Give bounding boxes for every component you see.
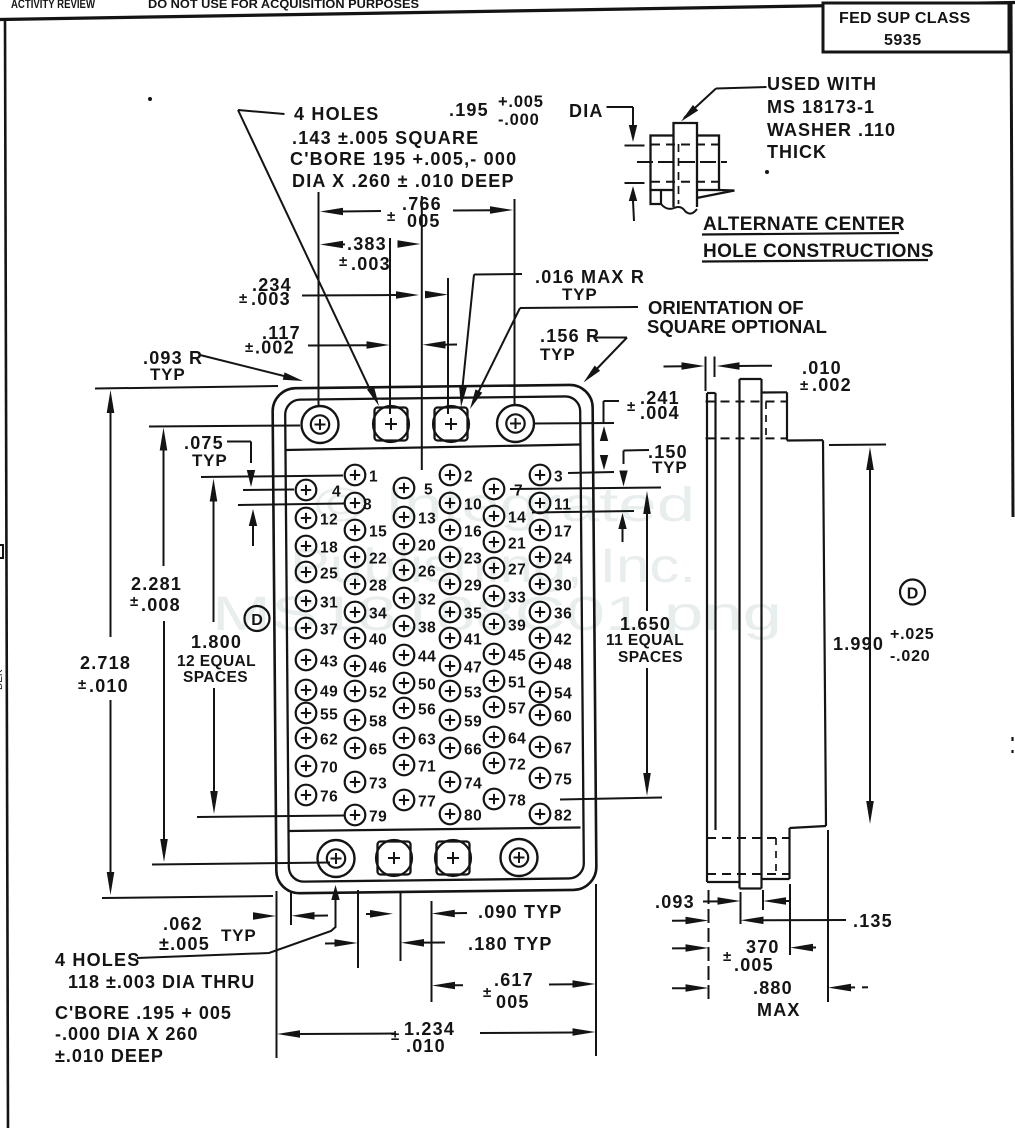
svg-text:MS 18173-1: MS 18173-1 bbox=[767, 97, 875, 117]
dim 1.650 11 equal spaces bbox=[643, 491, 651, 514]
svg-text:WASHER .110: WASHER .110 bbox=[767, 120, 896, 140]
svg-text:USED WITH: USED WITH bbox=[767, 74, 877, 94]
svg-text:31: 31 bbox=[320, 595, 338, 612]
svg-text:12: 12 bbox=[320, 512, 338, 529]
washer detail body bbox=[651, 136, 720, 191]
svg-text:±: ± bbox=[483, 984, 491, 1001]
contact hole 51 bbox=[484, 671, 505, 692]
svg-text:±: ± bbox=[339, 253, 347, 270]
contact hole 26 bbox=[394, 560, 415, 581]
svg-text:TYP: TYP bbox=[221, 926, 256, 945]
svg-text:63: 63 bbox=[418, 732, 436, 749]
svg-text:39: 39 bbox=[508, 618, 526, 635]
svg-text:18: 18 bbox=[320, 540, 338, 557]
svg-text:77: 77 bbox=[418, 794, 436, 811]
contact hole 78 bbox=[484, 789, 505, 810]
svg-text:75: 75 bbox=[554, 772, 572, 789]
svg-text:32: 32 bbox=[418, 592, 436, 609]
svg-text:.090 TYP: .090 TYP bbox=[478, 902, 563, 922]
svg-text:118 ±.003 DIA THRU: 118 ±.003 DIA THRU bbox=[68, 972, 255, 992]
contact hole 17 bbox=[530, 520, 551, 541]
svg-text:.195: .195 bbox=[449, 100, 489, 120]
svg-text:41: 41 bbox=[464, 632, 482, 649]
contact hole 37 bbox=[296, 618, 317, 639]
dim .090 typ bbox=[366, 913, 373, 915]
contact hole 80 bbox=[440, 804, 461, 825]
contact hole 38 bbox=[394, 616, 415, 637]
svg-text:±: ± bbox=[387, 208, 395, 225]
svg-text:82: 82 bbox=[554, 808, 572, 825]
svg-text:11 EQUAL: 11 EQUAL bbox=[606, 632, 684, 649]
leader used with bbox=[716, 87, 767, 89]
svg-text:40: 40 bbox=[369, 632, 387, 649]
svg-text:53: 53 bbox=[464, 685, 482, 702]
svg-text:54: 54 bbox=[554, 686, 572, 703]
section left wall bbox=[706, 393, 708, 830]
svg-text:-.000: -.000 bbox=[498, 111, 540, 129]
contact hole 44 bbox=[394, 645, 415, 666]
dim 2.281 bbox=[160, 428, 168, 451]
svg-text:-.020: -.020 bbox=[890, 648, 930, 665]
contact hole 7 bbox=[484, 479, 505, 500]
leader orientation bbox=[520, 307, 638, 308]
svg-text:+.025: +.025 bbox=[890, 626, 934, 643]
svg-text:43: 43 bbox=[320, 654, 338, 671]
leader 4 holes bottom to hole A bbox=[137, 899, 336, 958]
contact hole 25 bbox=[296, 562, 317, 583]
svg-text:2.718: 2.718 bbox=[80, 653, 131, 673]
contact hole 64 bbox=[484, 727, 505, 748]
leader hole 7 right bbox=[510, 488, 661, 490]
svg-text:50: 50 bbox=[418, 677, 436, 694]
svg-text:30: 30 bbox=[554, 578, 572, 595]
contact hole 71 bbox=[394, 755, 415, 776]
svg-text:4 HOLES: 4 HOLES bbox=[55, 950, 140, 970]
svg-text:74: 74 bbox=[464, 776, 482, 793]
svg-text:55: 55 bbox=[320, 707, 338, 724]
contact hole 41 bbox=[440, 628, 461, 649]
contact hole 18 bbox=[296, 536, 317, 557]
contact hole 20 bbox=[394, 534, 415, 555]
contact hole 22 bbox=[345, 547, 366, 568]
frame top border bbox=[0, 3, 1015, 20]
svg-text:7: 7 bbox=[514, 483, 523, 500]
svg-text:.180 TYP: .180 TYP bbox=[468, 934, 553, 954]
big hole top center line right bbox=[533, 422, 614, 425]
section body right bbox=[762, 391, 788, 393]
contact hole 50 bbox=[394, 673, 415, 694]
svg-text:.003: .003 bbox=[351, 254, 391, 274]
contact hole 79 bbox=[345, 805, 366, 826]
frame right border bbox=[1011, 3, 1013, 517]
dim 1.234 bbox=[277, 1030, 300, 1038]
svg-text:SPACES: SPACES bbox=[183, 669, 248, 686]
svg-text:13: 13 bbox=[418, 511, 436, 528]
plate top band separator bbox=[286, 445, 580, 451]
washer detail center post bbox=[674, 123, 698, 207]
datum circle D right bbox=[900, 580, 925, 605]
contact hole 13 bbox=[394, 507, 415, 528]
contact hole 31 bbox=[296, 591, 317, 612]
svg-text:DIA X .260 ± .010 DEEP: DIA X .260 ± .010 DEEP bbox=[292, 171, 515, 191]
big hole bottom center line left bbox=[152, 863, 330, 865]
svg-text:58: 58 bbox=[369, 714, 387, 731]
big hole bottom D bbox=[501, 839, 538, 876]
svg-text:.008: .008 bbox=[141, 595, 181, 615]
section hidden lines top bbox=[706, 401, 788, 403]
svg-text:35: 35 bbox=[464, 606, 482, 623]
svg-text:23: 23 bbox=[464, 551, 482, 568]
contact hole 3 bbox=[530, 465, 551, 486]
dim .180 typ bbox=[325, 942, 337, 944]
svg-text:15: 15 bbox=[369, 524, 387, 541]
leader .156 r bbox=[594, 337, 628, 339]
section ext lines bottom bbox=[708, 890, 710, 1004]
svg-text:14: 14 bbox=[508, 510, 526, 527]
section flange bottom bbox=[706, 830, 708, 882]
big hole top center line left bbox=[149, 426, 300, 427]
contact hole 73 bbox=[345, 772, 366, 793]
contact hole 45 bbox=[484, 644, 505, 665]
dim .150 typ bbox=[624, 449, 650, 452]
svg-text:56: 56 bbox=[418, 702, 436, 719]
contact hole 2 bbox=[440, 465, 461, 486]
svg-text:C'BORE .195 + 005: C'BORE .195 + 005 bbox=[55, 1003, 232, 1023]
contact hole 24 bbox=[530, 547, 551, 568]
svg-text:2: 2 bbox=[464, 469, 473, 486]
svg-text:-.000 DIA X 260: -.000 DIA X 260 bbox=[55, 1024, 198, 1044]
svg-text:.062: .062 bbox=[163, 914, 203, 934]
svg-text:±: ± bbox=[78, 676, 86, 693]
contact hole 28 bbox=[345, 574, 366, 595]
contact hole 21 bbox=[484, 532, 505, 553]
svg-text:±: ± bbox=[800, 377, 808, 394]
svg-text:79: 79 bbox=[369, 809, 387, 826]
svg-text:29: 29 bbox=[464, 578, 482, 595]
contact hole 54 bbox=[530, 682, 551, 703]
svg-text:25: 25 bbox=[320, 566, 338, 583]
svg-text:±.010 DEEP: ±.010 DEEP bbox=[55, 1046, 164, 1066]
contact hole 70 bbox=[296, 756, 317, 777]
svg-text:±: ± bbox=[391, 1027, 399, 1044]
contact hole 66 bbox=[440, 738, 461, 759]
leader hole 14 right bbox=[532, 511, 634, 513]
svg-text:.143 ±.005 SQUARE: .143 ±.005 SQUARE bbox=[292, 128, 479, 148]
svg-text:005: 005 bbox=[496, 992, 530, 1012]
svg-text:.010: .010 bbox=[89, 676, 129, 696]
svg-text:33: 33 bbox=[508, 590, 526, 607]
washer detail left tab bbox=[651, 190, 662, 204]
contact hole 57 bbox=[484, 697, 505, 718]
ext plate bottom left bbox=[102, 896, 273, 898]
svg-text:48: 48 bbox=[554, 657, 572, 674]
svg-text:TYP: TYP bbox=[192, 451, 227, 470]
svg-text:±: ± bbox=[723, 948, 731, 965]
svg-text:THICK: THICK bbox=[767, 142, 827, 162]
svg-text:FED SUP CLASS: FED SUP CLASS bbox=[839, 10, 971, 27]
svg-text:42: 42 bbox=[554, 632, 572, 649]
contact hole 77 bbox=[394, 790, 415, 811]
svg-text:.880: .880 bbox=[753, 978, 793, 998]
contact hole 72 bbox=[484, 753, 505, 774]
contact hole 53 bbox=[440, 681, 461, 702]
contact hole 62 bbox=[296, 728, 317, 749]
fed sup class box bbox=[823, 3, 1009, 52]
svg-text:SQUARE OPTIONAL: SQUARE OPTIONAL bbox=[647, 316, 827, 337]
svg-text:21: 21 bbox=[508, 536, 526, 553]
dim .135 bbox=[672, 920, 688, 922]
svg-text:22: 22 bbox=[369, 551, 387, 568]
ext line big hole C bbox=[447, 278, 449, 414]
svg-text:1.800: 1.800 bbox=[191, 632, 242, 652]
svg-text:27: 27 bbox=[508, 562, 526, 579]
dim .383 bbox=[320, 241, 343, 249]
svg-text:.003: .003 bbox=[251, 289, 291, 309]
stray dot bbox=[148, 97, 152, 101]
dim .010 bbox=[664, 365, 685, 367]
leader from 4 holes note to hole bbox=[238, 110, 285, 114]
svg-text:26: 26 bbox=[418, 564, 436, 581]
svg-text:TYP: TYP bbox=[150, 365, 185, 384]
svg-text:78: 78 bbox=[508, 793, 526, 810]
contact hole 75 bbox=[530, 768, 551, 789]
leader hole 1 left bbox=[201, 476, 343, 478]
svg-text:60: 60 bbox=[554, 709, 572, 726]
svg-text:24: 24 bbox=[554, 551, 572, 568]
ext line big hole D bbox=[514, 199, 516, 406]
contact hole 46 bbox=[345, 656, 366, 677]
svg-text:2.281: 2.281 bbox=[131, 574, 182, 594]
svg-text:1.990: 1.990 bbox=[833, 634, 884, 654]
contact hole 67 bbox=[530, 737, 551, 758]
contact hole 74 bbox=[440, 772, 461, 793]
svg-text:.093: .093 bbox=[655, 892, 695, 912]
svg-text:20: 20 bbox=[418, 538, 436, 555]
dim .766 bbox=[320, 208, 343, 216]
svg-text:DEK: DEK bbox=[0, 669, 5, 690]
contact hole 11 bbox=[530, 493, 551, 514]
dim .880 max bbox=[672, 987, 688, 989]
contact hole 59 bbox=[440, 710, 461, 731]
contact hole 29 bbox=[440, 574, 461, 595]
contact hole 12 bbox=[296, 508, 317, 529]
big hole bottom C bbox=[437, 842, 470, 875]
svg-text:005: 005 bbox=[407, 211, 441, 231]
ext line big hole A bbox=[318, 192, 320, 406]
big hole bottom B bbox=[378, 842, 411, 875]
svg-text:.004: .004 bbox=[640, 403, 680, 423]
ext plate top left bbox=[95, 386, 278, 389]
contact hole 36 bbox=[530, 602, 551, 623]
contact hole 58 bbox=[345, 710, 366, 731]
svg-text:71: 71 bbox=[418, 759, 436, 776]
svg-text:49: 49 bbox=[320, 684, 338, 701]
svg-text:5: 5 bbox=[424, 482, 433, 499]
svg-text:TYP: TYP bbox=[652, 458, 687, 477]
datum circle D left bbox=[245, 606, 270, 631]
contact hole 47 bbox=[440, 656, 461, 677]
svg-text:D: D bbox=[251, 612, 263, 629]
contact hole 39 bbox=[484, 614, 505, 635]
section ext lines top bbox=[705, 357, 707, 392]
contact hole 16 bbox=[440, 520, 461, 541]
svg-text:16: 16 bbox=[464, 524, 482, 541]
svg-text:.002: .002 bbox=[812, 375, 852, 395]
contact hole 1 bbox=[345, 465, 366, 486]
svg-text:46: 46 bbox=[369, 660, 387, 677]
svg-text:.016 MAX R: .016 MAX R bbox=[535, 267, 645, 287]
svg-text:±: ± bbox=[627, 398, 635, 415]
svg-text:59: 59 bbox=[464, 714, 482, 731]
svg-text:HOLE CONSTRUCTIONS: HOLE CONSTRUCTIONS bbox=[703, 241, 934, 262]
leader .093 r bbox=[200, 355, 296, 379]
svg-text:65: 65 bbox=[369, 742, 387, 759]
svg-text:4: 4 bbox=[332, 484, 341, 501]
contact hole 10 bbox=[440, 493, 461, 514]
svg-text:±: ± bbox=[245, 339, 253, 356]
leader hole 79 left bbox=[197, 816, 344, 818]
contact hole 65 bbox=[345, 738, 366, 759]
svg-text:MAX: MAX bbox=[757, 1000, 801, 1020]
contact hole 63 bbox=[394, 728, 415, 749]
big hole top B bbox=[375, 408, 408, 441]
svg-text:38: 38 bbox=[418, 620, 436, 637]
svg-text:±: ± bbox=[130, 593, 138, 610]
ext lines below plate bbox=[276, 891, 278, 1058]
dim 1.990 bbox=[829, 444, 886, 447]
dim .617 bbox=[432, 982, 455, 990]
leader hole 8 left bbox=[238, 504, 344, 506]
svg-text:±.005: ±.005 bbox=[159, 934, 210, 954]
svg-text:57: 57 bbox=[508, 701, 526, 718]
leader hole 3 right bbox=[568, 472, 614, 473]
contact hole 30 bbox=[530, 574, 551, 595]
contact hole 76 bbox=[296, 785, 317, 806]
contact hole 5 bbox=[394, 478, 415, 499]
svg-text:1: 1 bbox=[369, 469, 378, 486]
dim .234 bbox=[302, 294, 396, 297]
svg-text:4 HOLES: 4 HOLES bbox=[294, 104, 379, 124]
left margin mark 1 bbox=[0, 544, 4, 546]
svg-text:28: 28 bbox=[369, 578, 387, 595]
contact hole 48 bbox=[530, 653, 551, 674]
contact hole 49 bbox=[296, 680, 317, 701]
svg-text:73: 73 bbox=[369, 776, 387, 793]
svg-text:1.650: 1.650 bbox=[620, 614, 671, 634]
contact hole 32 bbox=[394, 588, 415, 609]
section bottom step bbox=[790, 826, 827, 828]
svg-text:67: 67 bbox=[554, 741, 572, 758]
dim .370 bbox=[672, 947, 688, 949]
svg-text:3: 3 bbox=[554, 469, 563, 486]
contact hole 43 bbox=[296, 650, 317, 671]
svg-text:C'BORE 195 +.005,- 000: C'BORE 195 +.005,- 000 bbox=[290, 149, 517, 169]
svg-text:8: 8 bbox=[363, 497, 372, 514]
svg-text:.010: .010 bbox=[406, 1036, 446, 1056]
svg-text:+.005: +.005 bbox=[498, 93, 544, 111]
svg-text:±: ± bbox=[239, 290, 247, 307]
contact hole 82 bbox=[530, 804, 551, 825]
dim 1.800 12 equal spaces bbox=[210, 479, 218, 502]
leader hole 78 right bbox=[560, 798, 662, 800]
svg-text:17: 17 bbox=[554, 524, 572, 541]
svg-text:.156 R: .156 R bbox=[540, 326, 600, 346]
svg-text:11: 11 bbox=[554, 497, 571, 514]
big hole top C bbox=[435, 408, 468, 441]
svg-text:D: D bbox=[907, 586, 919, 603]
big hole bottom A bbox=[318, 840, 355, 877]
section center post bbox=[738, 379, 740, 889]
svg-text:36: 36 bbox=[554, 606, 572, 623]
svg-text:66: 66 bbox=[464, 742, 482, 759]
svg-text:370: 370 bbox=[746, 937, 780, 957]
svg-text:.383: .383 bbox=[347, 234, 387, 254]
svg-text:.002: .002 bbox=[255, 338, 295, 358]
svg-text:72: 72 bbox=[508, 757, 526, 774]
svg-text:.135: .135 bbox=[853, 911, 893, 931]
plate outer outline bbox=[272, 385, 596, 894]
svg-text:51: 51 bbox=[508, 675, 526, 692]
contact hole 56 bbox=[394, 698, 415, 719]
leader .016 max r bbox=[474, 273, 522, 276]
svg-text:TYP: TYP bbox=[540, 345, 575, 364]
big hole top D bbox=[497, 405, 534, 442]
svg-text:ACTIVITY REVIEW: ACTIVITY REVIEW bbox=[11, 0, 96, 11]
svg-text:TYP: TYP bbox=[562, 285, 597, 304]
svg-text:47: 47 bbox=[464, 660, 482, 677]
contact hole 55 bbox=[296, 703, 317, 724]
washer hidden lines bbox=[651, 144, 718, 146]
svg-text:37: 37 bbox=[320, 622, 338, 639]
ext line big hole B bbox=[389, 238, 391, 414]
section hidden lines bottom bbox=[707, 837, 789, 839]
contact hole 52 bbox=[345, 681, 366, 702]
dim .117 bbox=[308, 344, 369, 346]
svg-text:5935: 5935 bbox=[884, 32, 922, 49]
washer detail break line bbox=[661, 204, 697, 214]
plate bottom band separator bbox=[289, 828, 581, 832]
svg-text:12 EQUAL: 12 EQUAL bbox=[177, 653, 256, 670]
contact hole 15 bbox=[345, 520, 366, 541]
contact hole 23 bbox=[440, 547, 461, 568]
svg-text:ORIENTATION OF: ORIENTATION OF bbox=[648, 297, 804, 318]
contact hole 40 bbox=[345, 628, 366, 649]
contact hole 4 bbox=[296, 480, 317, 501]
contact hole 34 bbox=[345, 602, 366, 623]
contact hole 14 bbox=[484, 506, 505, 527]
svg-text:34: 34 bbox=[369, 606, 387, 623]
svg-text:.075: .075 bbox=[184, 433, 224, 453]
contact hole 35 bbox=[440, 602, 461, 623]
svg-text:64: 64 bbox=[508, 731, 526, 748]
plate center line bbox=[421, 196, 423, 470]
dim 2.718 bbox=[107, 390, 115, 413]
svg-text:DO NOT USE FOR ACQUISITION PUR: DO NOT USE FOR ACQUISITION PURPOSES bbox=[148, 0, 419, 11]
contact hole 60 bbox=[530, 705, 551, 726]
contact hole 33 bbox=[484, 586, 505, 607]
svg-text:45: 45 bbox=[508, 648, 526, 665]
svg-text:SPACES: SPACES bbox=[618, 649, 683, 666]
svg-text:DIA: DIA bbox=[569, 101, 604, 121]
contact hole 42 bbox=[530, 628, 551, 649]
svg-text:70: 70 bbox=[320, 760, 338, 777]
svg-text:.617: .617 bbox=[494, 970, 534, 990]
svg-text:ALTERNATE CENTER: ALTERNATE CENTER bbox=[703, 214, 905, 235]
leader dia to washer detail bbox=[607, 106, 634, 108]
leader hole 4 left bbox=[243, 489, 294, 492]
big hole top A bbox=[302, 406, 339, 443]
svg-text:.005: .005 bbox=[734, 955, 774, 975]
